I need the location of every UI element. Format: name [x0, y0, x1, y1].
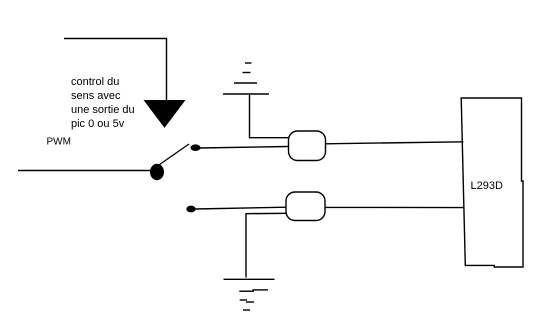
wire control-signal: horizontal then down to arrow: [64, 39, 167, 102]
wire ground-top to upper component: [250, 95, 289, 138]
wire lower component to L293D: [325, 206, 464, 208]
svg-text:PWM: PWM: [47, 137, 71, 148]
node upper contact (small dot): [191, 144, 201, 151]
svg-text:L293D: L293D: [471, 180, 503, 192]
arrowhead (down) at end of control wire: [145, 101, 185, 128]
switch lever: [156, 144, 189, 167]
svg-text:control du: control du: [71, 76, 119, 88]
wire upper component to L293D: [326, 142, 464, 144]
svg-text:une sortie du: une sortie du: [71, 104, 135, 116]
IC L293D box (hand-drawn with slight jogs): [461, 98, 523, 267]
wire upper contact to component: [199, 147, 289, 149]
ground top (inverted): [223, 63, 269, 94]
wire ground-bottom to lower component: [246, 213, 287, 277]
node lower contact (small dot): [186, 206, 195, 213]
annotation text: control du sens avec une sortie du pic 0 ou 5v: [71, 76, 135, 130]
ground bottom: [224, 279, 275, 310]
svg-text:sens avec: sens avec: [71, 90, 121, 102]
svg-text:pic 0 ou 5v: pic 0 ou 5v: [71, 118, 125, 130]
wire PWM input: [18, 170, 152, 172]
lower component (rounded box): [286, 192, 325, 221]
switch pivot junction (big dot): [150, 164, 164, 180]
upper component (rounded box): [289, 131, 326, 161]
wire lower contact to component: [195, 207, 287, 209]
